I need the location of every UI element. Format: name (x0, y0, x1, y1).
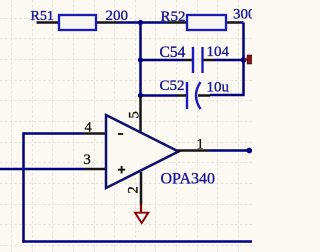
svg-text:2: 2 (126, 186, 142, 193)
svg-text:1: 1 (197, 137, 204, 153)
wire bottom run (22, 240, 252, 243)
capacitor C54 (193, 47, 203, 73)
resistor R52 (187, 15, 226, 30)
op-amp minus mark (118, 133, 123, 135)
wire right vertical net (210, 23, 244, 96)
op-amp pin 3 (84, 168, 107, 171)
wire top-right elbow (240, 21, 244, 24)
port stub (244, 58, 248, 60)
wire R52 right pin (225, 21, 240, 24)
node junction C52 left (138, 93, 143, 98)
node junction top (138, 20, 143, 25)
wire center vertical net (139, 23, 142, 98)
op-amp U1 OPA340 (106, 115, 179, 188)
wire R52 left pin (167, 21, 188, 24)
wire C54 left pin (183, 59, 192, 62)
node output junction (246, 148, 252, 154)
svg-text:C52: C52 (160, 78, 185, 94)
wire C54 right pin (204, 59, 215, 62)
wire C54 left (141, 59, 184, 62)
wire R51 right pin (95, 21, 117, 24)
grid (decorative) (0, 0, 252, 252)
svg-text:R52: R52 (161, 9, 186, 25)
op-amp pin 5 (139, 96, 142, 134)
svg-text:OPA340: OPA340 (161, 171, 216, 188)
svg-text:R51: R51 (31, 9, 54, 24)
resistor R51 (59, 15, 96, 30)
svg-text:3: 3 (84, 152, 91, 168)
svg-text:5: 5 (127, 111, 143, 118)
wire left vertical net (22, 132, 25, 242)
wire top run to junction and R52 (117, 21, 167, 24)
port (clipped at edge) (247, 55, 253, 64)
ground (135, 204, 148, 223)
op-amp pin 1 (177, 149, 209, 152)
svg-text:200: 200 (106, 8, 129, 24)
op-amp pin 4 (84, 132, 107, 135)
svg-text:10u: 10u (207, 80, 230, 96)
node junction right (241, 57, 247, 63)
op-amp plus mark (118, 166, 125, 173)
wire C54 right to junction (214, 59, 244, 62)
wire pin4 net from left elbow (24, 132, 85, 135)
svg-text:104: 104 (207, 44, 230, 60)
wire C52 left (141, 94, 178, 97)
capacitor C52 (polarized) (187, 82, 201, 109)
svg-text:300: 300 (233, 7, 252, 23)
wire output (209, 149, 250, 152)
svg-text:4: 4 (85, 120, 93, 136)
wire C52 right pin (198, 94, 210, 97)
svg-text:C54: C54 (160, 44, 186, 61)
wire C52 left pin (177, 94, 186, 97)
op-amp pin 2 (140, 172, 143, 205)
wire R51 left pin (37, 21, 61, 24)
wire pin3 input (0, 168, 84, 171)
node junction C54 left (138, 57, 143, 62)
